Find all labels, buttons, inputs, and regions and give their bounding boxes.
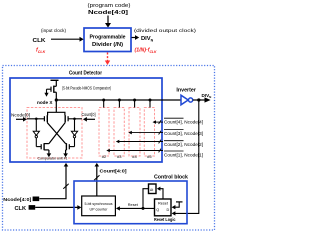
wire cross couple left to right xyxy=(47,122,65,143)
svg-text:(program code): (program code) xyxy=(88,3,131,9)
junction rail to unit 4 xyxy=(133,99,136,102)
power high tie for D input xyxy=(176,201,183,203)
svg-text:5-bit synchronous: 5-bit synchronous xyxy=(85,202,113,206)
svg-text:D: D xyxy=(167,208,170,212)
svg-text:Control block: Control block xyxy=(154,174,188,180)
block U1 programmable divider xyxy=(84,28,131,52)
wire CLK to divider xyxy=(51,38,80,40)
wire reset to counter xyxy=(120,207,155,209)
svg-text:(5-bit Pseudo-NMOS Comparator): (5-bit Pseudo-NMOS Comparator) xyxy=(62,86,111,91)
comparator unit #5 dashed box xyxy=(144,108,154,157)
svg-text:node X: node X xyxy=(37,100,53,105)
svg-text:Count[3], Ncode[3]: Count[3], Ncode[3] xyxy=(164,131,203,136)
wire unit3 inputs Count2 Ncode2 xyxy=(116,140,163,144)
wire unit2 inputs Count1 Ncode1 xyxy=(106,149,163,153)
wire delay out to reset line xyxy=(143,189,149,209)
svg-text:Count[2], Ncode[2]: Count[2], Ncode[2] xyxy=(164,142,203,147)
junction reset line xyxy=(142,207,145,210)
wire unit5 inputs Count4 Ncode4 xyxy=(153,120,164,124)
junction node X at MP1 drain xyxy=(55,98,58,101)
wire into delay from right xyxy=(160,189,163,199)
block delay element xyxy=(149,184,157,194)
junction rail to unit 2 xyxy=(102,99,105,102)
svg-text:#3: #3 xyxy=(117,154,122,159)
net label Count[2] Ncode[2] xyxy=(164,141,203,147)
transistor MP1 pseudo-NMOS PMOS load xyxy=(51,80,56,100)
transistor M1 top-left NMOS xyxy=(44,115,47,122)
wire divider to DIVN xyxy=(132,37,136,39)
inverter INV2 right xyxy=(74,119,76,132)
power VDD bar xyxy=(51,79,59,81)
svg-text:Count[0]: Count[0] xyxy=(82,112,96,117)
bus slash Ncode xyxy=(63,184,68,189)
wire Ncode0 input arrow xyxy=(16,118,24,120)
block 5-bit synchronous UP counter xyxy=(82,196,116,216)
wire Ncode into divider xyxy=(107,16,109,24)
junction rail to unit 3 xyxy=(118,99,121,102)
wire INV1 out to M3 gate xyxy=(36,146,41,148)
wire inverter output to DIVN xyxy=(193,99,205,101)
svg-text:Inverter: Inverter xyxy=(176,88,196,94)
comparator unit #2 dashed box xyxy=(99,108,109,157)
svg-text:Comparator unit #1: Comparator unit #1 xyxy=(38,156,69,161)
wire Count0 gate wire xyxy=(68,118,82,120)
svg-text:Reset Logic: Reset Logic xyxy=(154,217,176,222)
net label Count[4] Ncode[4] xyxy=(164,118,203,124)
block count detector box xyxy=(10,78,162,162)
svg-text:Ncode[4:0]: Ncode[4:0] xyxy=(88,10,128,16)
comparator unit #4 dashed box xyxy=(129,108,140,157)
svg-text:Divider (/N): Divider (/N) xyxy=(92,42,123,48)
svg-text:CLK: CLK xyxy=(15,206,27,212)
svg-text:CLK: CLK xyxy=(33,38,47,44)
wire DIVN feedback down xyxy=(175,100,199,213)
svg-text:#2: #2 xyxy=(102,154,107,159)
svg-text:Reset: Reset xyxy=(158,201,168,205)
junction Count0 branch xyxy=(73,118,76,121)
wire cross couple right to left xyxy=(49,122,65,143)
svg-text:Reset: Reset xyxy=(128,203,138,207)
transistor M4 bottom-right NMOS xyxy=(66,143,70,150)
svg-text:Count[1], Ncode[1]: Count[1], Ncode[1] xyxy=(164,152,203,157)
port DIVN arrow xyxy=(205,97,211,102)
wire rail to unit 2 xyxy=(103,100,105,108)
svg-text:Q: Q xyxy=(156,208,159,212)
transistor M3 bottom-left NMOS xyxy=(41,143,49,150)
block control box xyxy=(74,181,187,224)
svg-text:Count[4], Ncode[4]: Count[4], Ncode[4] xyxy=(164,120,203,125)
net label Count[1] Ncode[1] xyxy=(164,151,203,157)
node X rail xyxy=(56,99,181,101)
svg-text:(input clock): (input clock) xyxy=(41,28,66,33)
svg-text:Ncode[0]: Ncode[0] xyxy=(11,113,30,118)
wire CLK to counter xyxy=(35,206,77,208)
wire Ncode0 gate wire xyxy=(27,118,44,120)
wire INV2 out to M4 gate xyxy=(69,146,74,148)
bus slash Count xyxy=(94,175,99,180)
port marker Ncode xyxy=(33,197,40,202)
wire Count0 input arrow xyxy=(87,118,96,120)
wire unit4 inputs Count3 Ncode3 xyxy=(128,131,163,135)
svg-text:UP counter: UP counter xyxy=(90,208,109,212)
wire Ncode bus up into count detector xyxy=(39,166,66,199)
transistor M2 top-right NMOS xyxy=(65,115,68,122)
ground arrow left xyxy=(48,150,50,154)
svg-text:Count Detector: Count Detector xyxy=(69,71,103,77)
wire red dashed implementation arrow xyxy=(107,53,109,62)
comparator unit #1 dashed box xyxy=(27,108,82,159)
wire top drain bar unit 1 xyxy=(48,112,65,115)
junction Ncode0 branch xyxy=(35,118,38,121)
ground arrow right xyxy=(65,150,67,154)
svg-text:#4: #4 xyxy=(132,154,137,159)
svg-text:Ncode[4:0]: Ncode[4:0] xyxy=(3,197,32,202)
svg-text:(divided output clock): (divided output clock) xyxy=(134,28,197,33)
comparator unit #3 dashed box xyxy=(114,108,124,157)
block reset logic flip-flop xyxy=(155,199,172,216)
junction DIVN node xyxy=(197,98,200,101)
wire MP1 gate to low xyxy=(47,89,52,93)
net label Count[3] Ncode[3] xyxy=(164,130,203,136)
inverter INV1 left xyxy=(35,119,37,132)
wire rail to unit 4 xyxy=(134,100,136,108)
svg-text:Count[4:0]: Count[4:0] xyxy=(100,169,127,175)
outer chip boundary dotted box xyxy=(3,66,215,231)
svg-text:Δt: Δt xyxy=(150,188,153,192)
svg-text:Programmable: Programmable xyxy=(90,35,126,41)
svg-text:#5: #5 xyxy=(147,154,152,159)
wire Count bus counter to detector xyxy=(96,166,98,196)
wire rail to unit 3 xyxy=(118,100,120,108)
inverter U2 output stage xyxy=(181,95,193,105)
junction rail to unit 5 xyxy=(149,99,152,102)
port marker CLK xyxy=(29,205,36,210)
wire rail to unit 5 xyxy=(149,100,151,108)
wire node X to top bar of unit 1 xyxy=(55,100,57,112)
